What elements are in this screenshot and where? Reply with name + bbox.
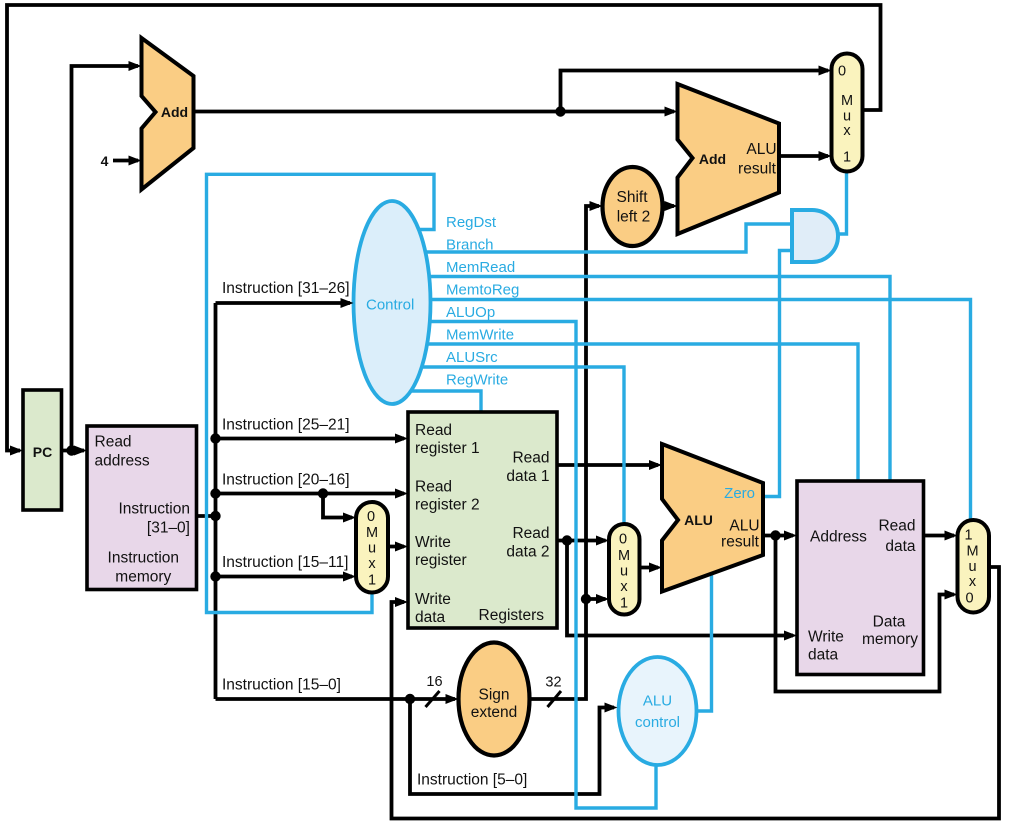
svg-text:x: x	[368, 556, 376, 572]
svg-text:memory: memory	[862, 631, 918, 648]
svg-text:left 2: left 2	[617, 209, 651, 226]
svg-text:32: 32	[545, 675, 561, 691]
svg-text:Control: Control	[366, 297, 414, 314]
svg-text:RegDst: RegDst	[446, 214, 497, 231]
svg-text:Instruction [31–26]: Instruction [31–26]	[222, 280, 350, 297]
svg-text:register 1: register 1	[415, 440, 480, 457]
svg-text:Instruction [5–0]: Instruction [5–0]	[417, 772, 527, 789]
svg-text:1: 1	[368, 573, 376, 589]
svg-text:M: M	[966, 544, 978, 560]
svg-text:Instruction [20–16]: Instruction [20–16]	[222, 472, 350, 489]
svg-text:4: 4	[101, 153, 109, 169]
svg-text:ALU: ALU	[746, 141, 776, 158]
svg-text:Read: Read	[512, 450, 549, 467]
svg-text:Read: Read	[415, 422, 452, 439]
svg-text:Address: Address	[810, 529, 867, 546]
svg-text:Read: Read	[415, 479, 452, 496]
svg-text:M: M	[366, 525, 378, 541]
svg-text:MemRead: MemRead	[446, 259, 515, 276]
svg-text:Instruction [25–21]: Instruction [25–21]	[222, 417, 350, 434]
svg-text:control: control	[635, 714, 680, 731]
svg-text:Write: Write	[415, 534, 451, 551]
svg-text:Registers: Registers	[479, 607, 545, 624]
svg-text:Add: Add	[699, 151, 726, 167]
svg-text:Read: Read	[95, 434, 132, 451]
svg-text:Data: Data	[873, 614, 906, 631]
svg-text:[31–0]: [31–0]	[147, 520, 190, 537]
svg-text:ALU: ALU	[684, 512, 713, 528]
svg-text:data: data	[415, 609, 446, 626]
svg-text:ALU: ALU	[729, 518, 759, 535]
svg-text:data 1: data 1	[506, 468, 549, 485]
svg-text:MemtoReg: MemtoReg	[446, 282, 519, 299]
svg-text:result: result	[738, 161, 777, 178]
svg-text:Instruction: Instruction	[118, 501, 190, 518]
svg-text:MemWrite: MemWrite	[446, 327, 514, 344]
svg-text:Shift: Shift	[616, 189, 648, 206]
svg-text:Write: Write	[415, 591, 451, 608]
svg-text:u: u	[368, 541, 376, 557]
svg-text:register: register	[415, 552, 467, 569]
svg-text:Instruction: Instruction	[108, 550, 180, 567]
svg-text:ALU: ALU	[643, 693, 672, 710]
svg-text:Branch: Branch	[446, 237, 494, 254]
svg-text:x: x	[969, 574, 977, 590]
svg-text:Read: Read	[512, 525, 549, 542]
svg-text:0: 0	[838, 64, 846, 80]
svg-text:16: 16	[426, 674, 442, 690]
svg-text:data: data	[885, 538, 916, 555]
svg-text:ALUOp: ALUOp	[446, 304, 495, 321]
svg-text:ALUSrc: ALUSrc	[446, 349, 498, 366]
svg-text:data 2: data 2	[506, 544, 549, 561]
svg-text:register 2: register 2	[415, 497, 480, 514]
svg-text:M: M	[841, 93, 853, 109]
svg-text:u: u	[620, 564, 628, 580]
svg-text:Sign: Sign	[478, 687, 509, 704]
svg-text:address: address	[95, 453, 150, 470]
svg-text:x: x	[843, 123, 851, 139]
svg-text:data: data	[808, 647, 839, 664]
svg-text:M: M	[618, 548, 630, 564]
svg-text:extend: extend	[471, 704, 518, 721]
svg-text:0: 0	[965, 591, 973, 607]
svg-text:u: u	[968, 559, 976, 575]
svg-text:1: 1	[620, 596, 628, 612]
svg-text:Instruction [15–0]: Instruction [15–0]	[222, 677, 341, 694]
svg-text:0: 0	[367, 509, 375, 525]
svg-text:Zero: Zero	[724, 485, 755, 502]
svg-text:1: 1	[964, 528, 972, 544]
svg-text:Add: Add	[161, 104, 188, 120]
svg-text:Instruction [15–11]: Instruction [15–11]	[222, 554, 348, 571]
svg-text:0: 0	[619, 532, 627, 548]
svg-text:Write: Write	[808, 629, 844, 646]
svg-text:x: x	[620, 579, 628, 595]
svg-text:PC: PC	[33, 444, 52, 460]
svg-text:result: result	[721, 534, 760, 551]
svg-text:Read: Read	[878, 518, 915, 535]
svg-text:memory: memory	[115, 569, 171, 586]
svg-text:RegWrite: RegWrite	[446, 372, 508, 389]
svg-text:1: 1	[843, 150, 851, 166]
